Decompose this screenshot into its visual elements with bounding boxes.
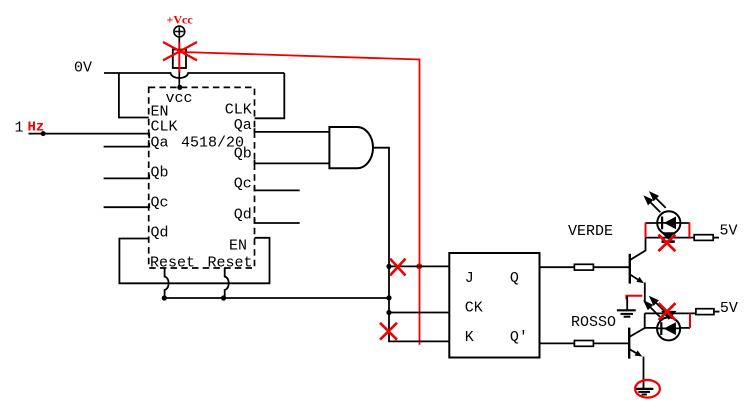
transistor Q2 emitter arrowhead	[635, 350, 643, 356]
svg-text:Qd: Qd	[234, 206, 252, 223]
transistor Q2	[629, 313, 645, 389]
IC U1 4518/20 dashed outline	[149, 87, 255, 268]
svg-text:ROSSO: ROSSO	[571, 314, 616, 331]
svg-text:1: 1	[15, 119, 24, 136]
AND gate U2	[329, 127, 373, 168]
resistor R2 (Q to base)	[574, 264, 593, 270]
svg-text:CLK: CLK	[225, 102, 252, 119]
red X on vertical between CK and K	[380, 323, 397, 340]
resistor R3 (to 5V top)	[694, 235, 713, 241]
LED D1 emission arrows	[645, 193, 666, 212]
red junction dot on J wire	[416, 263, 422, 269]
wire Qb right to AND input 2	[255, 160, 330, 164]
resistor R1 (Vcc series, crossed out)	[173, 50, 186, 69]
svg-text:vcc: vcc	[166, 90, 193, 107]
junction dot reset rail right	[221, 295, 226, 300]
ground (bottom, red circled)	[635, 389, 653, 395]
wire Vcc stem bottom to IC	[178, 68, 180, 87]
wire R3 to 5V	[713, 237, 719, 239]
junction dot vcc pin	[177, 85, 182, 90]
svg-text:CLK: CLK	[151, 119, 178, 136]
svg-text:Qc: Qc	[151, 194, 169, 211]
wire Qd right stub	[255, 219, 300, 223]
wire Q output	[540, 266, 575, 268]
svg-text:Qa: Qa	[234, 117, 252, 134]
wire Vcc stem top	[178, 37, 180, 50]
LED D3 emission arrows	[645, 298, 666, 317]
wire bottom LED mid rail	[645, 327, 690, 329]
junction dot J branch	[386, 264, 391, 269]
svg-text:0V: 0V	[74, 59, 92, 76]
svg-text:K: K	[465, 329, 474, 346]
resistor R4 (Q' to base)	[574, 341, 593, 347]
svg-text:5V: 5V	[720, 300, 738, 317]
wire Reset left down with hop	[165, 268, 169, 298]
red ellipse around bottom ground	[635, 380, 660, 398]
wire CK input	[389, 312, 449, 314]
svg-text:CK: CK	[465, 300, 483, 317]
wire Qd left to EN right (U route)	[119, 238, 269, 283]
diode D2 (crossed out, top)	[661, 232, 676, 239]
red X on J wire	[390, 259, 406, 276]
junction dot on 1 Hz wire	[41, 131, 46, 136]
wire top LED top rail	[646, 222, 690, 224]
svg-text:5V: 5V	[720, 223, 738, 240]
wire 0V down to CLK right pin	[255, 73, 285, 118]
svg-text:+Vcc: +Vcc	[167, 12, 194, 26]
red wire from R1 to right column	[182, 52, 420, 345]
wire J input	[389, 265, 449, 267]
wire 0V down to EN left pin	[119, 73, 149, 118]
transistor Q1 emitter arrowhead	[636, 277, 644, 283]
diode D4 (crossed out, bottom)	[661, 311, 677, 320]
wire AND output down to K	[373, 148, 449, 342]
wire reset rail to JK column	[164, 297, 389, 299]
wire Q' output	[540, 342, 575, 344]
svg-text:Qd: Qd	[151, 224, 169, 241]
ground (middle)	[617, 296, 636, 317]
wire Qc right stub	[255, 187, 300, 191]
wire R5 to 5V	[714, 311, 720, 313]
junction dot reset rail joins	[386, 295, 391, 300]
svg-text:EN: EN	[229, 237, 247, 254]
svg-text:Qa: Qa	[151, 134, 169, 151]
IC U1 pin labels	[150, 90, 253, 272]
svg-text:VERDE: VERDE	[568, 223, 613, 240]
wire 0V rail with hop over Vcc stem	[104, 73, 284, 78]
wire top LED bottom rail	[646, 237, 695, 239]
red X over diode D4	[659, 303, 676, 320]
wire bottom LED top rail	[645, 312, 696, 314]
junction dot reset rail left	[162, 295, 167, 300]
LED D3 (ROSSO)	[657, 317, 680, 340]
svg-text:Q: Q	[510, 270, 519, 287]
resistor R5 (to 5V bottom)	[696, 309, 714, 315]
flip-flop U3 pin labels	[465, 270, 528, 346]
svg-text:Qb: Qb	[234, 145, 252, 162]
junction dot CK branch	[386, 310, 391, 315]
wire 1 Hz to CLK left pin	[29, 134, 150, 139]
red X over resistor R1	[163, 42, 197, 60]
red marks around LED D1	[646, 223, 690, 238]
LED D1 (VERDE)	[657, 211, 680, 234]
svg-text:Q': Q'	[510, 329, 528, 346]
wire Reset right down with hop	[225, 268, 229, 298]
svg-text:J: J	[465, 270, 474, 287]
wire Qb left stub	[104, 175, 150, 179]
wire R2 to Q1 base	[593, 266, 629, 268]
flip-flop U3 JK	[449, 253, 539, 358]
red bridge emitter to ground	[626, 296, 642, 300]
svg-text:Reset: Reset	[207, 255, 252, 272]
svg-text:Qc: Qc	[234, 175, 252, 192]
wire Qa left stub	[104, 143, 150, 147]
wire Qc left stub	[104, 203, 150, 207]
red right side of bottom LED loop	[689, 313, 691, 328]
svg-text:Reset: Reset	[150, 255, 195, 272]
wire R4 to Q2 base	[593, 342, 629, 344]
power supply circle symbol	[174, 26, 185, 37]
red wire from R1 down to 0V bump	[178, 43, 180, 73]
red X over diode D2	[658, 235, 675, 252]
wire Qa right to AND input 1	[255, 128, 330, 132]
transistor Q1	[630, 238, 646, 303]
svg-text:Qb: Qb	[151, 164, 169, 181]
